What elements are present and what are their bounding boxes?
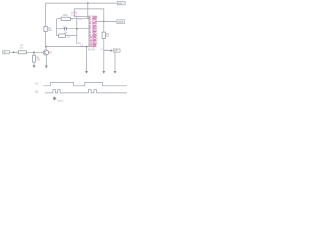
ground under IC [85, 71, 88, 74]
svg-text:C2: C2 [67, 37, 71, 39]
connector J3 input box [3, 51, 10, 55]
wire pin 16 stub [74, 16, 89, 18]
wire rc left rail [56, 19, 58, 36]
waveform trace IN [43, 82, 127, 85]
resistor R5 pulldown [33, 52, 41, 65]
node output junction [103, 21, 105, 23]
svg-text:Q1: Q1 [35, 90, 39, 94]
svg-text:13: 13 [80, 45, 83, 48]
wire left pin bus [76, 17, 78, 45]
resistor R1 [44, 26, 53, 46]
svg-text:16 15: 16 15 [71, 11, 78, 14]
IC U1 right pin stubs [96, 17, 98, 43]
connector J4 box [113, 49, 120, 53]
node gnd branch junction [86, 46, 88, 48]
ground under J4 [114, 71, 117, 74]
wire VDD to IC [88, 3, 90, 18]
waveform trace OUT [45, 90, 127, 93]
label IC pin names right column [92, 16, 97, 48]
connector J1 +9V [117, 1, 125, 5]
svg-text:4017B: 4017B [88, 49, 95, 52]
capacitor C2 [57, 34, 77, 39]
wire cap branch [104, 50, 114, 52]
svg-text:IN: IN [3, 51, 6, 54]
wire reset net [74, 9, 104, 22]
svg-text:16: 16 [71, 19, 74, 21]
wire collector [45, 47, 47, 50]
svg-text:10k: 10k [36, 60, 41, 62]
svg-text:100k: 100k [62, 14, 68, 17]
wire J4 ground drop [114, 52, 116, 71]
resistor R4 input [18, 45, 26, 54]
svg-text:9 8: 9 8 [79, 19, 83, 21]
wire input [10, 51, 19, 53]
svg-text:10k: 10k [48, 30, 53, 32]
svg-text:10k: 10k [20, 48, 24, 50]
svg-text:TR1: TR1 [48, 52, 53, 54]
wire IC pin to output connector [96, 20, 117, 22]
IC U1 body [89, 16, 96, 47]
node collector junction [45, 46, 47, 48]
connector J2 OUT [117, 20, 125, 24]
ground under R5 [33, 65, 36, 68]
wire VCC top rail [46, 3, 118, 26]
svg-text:OUT: OUT [118, 20, 124, 24]
svg-text:SP: SP [114, 50, 118, 53]
ground under Q1 [45, 66, 48, 69]
node cap junction [76, 28, 78, 30]
node base junction [33, 51, 35, 53]
svg-text:IN: IN [35, 82, 38, 86]
capacitor C1 timing [57, 25, 90, 34]
svg-text:+9V: +9V [118, 2, 123, 5]
wire emitter [45, 55, 47, 65]
wire to base [26, 51, 43, 53]
ground under R2 [102, 71, 105, 74]
svg-text:note 1: note 1 [57, 99, 64, 102]
resistor R3 timing [57, 14, 90, 21]
input flow arrow [13, 51, 15, 53]
note asterisk [53, 97, 56, 101]
node VCC junction [87, 2, 89, 4]
wire IC ground drop [86, 47, 88, 71]
label IC pin names left column [89, 17, 92, 48]
wire collector to IC [46, 46, 89, 48]
resistor R2 [102, 21, 110, 71]
capacitor C3 marks [110, 49, 111, 51]
svg-text:C1: C1 [63, 25, 67, 28]
transistor Q1 [43, 50, 52, 55]
